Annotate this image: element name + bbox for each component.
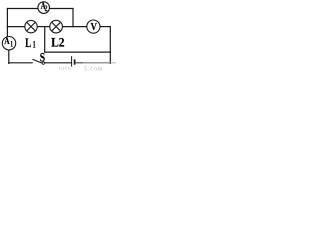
svg-text:S: S [40,50,45,64]
svg-text:1: 1 [33,40,36,51]
wire node L2-branch horizontal [45,51,111,53]
wire lamps row seg1 [7,26,25,28]
svg-text:A: A [4,36,9,47]
watermark underline stub [110,62,116,64]
svg-text:1: 1 [10,38,13,48]
wire right vertical [109,27,111,64]
voltmeter V [87,20,100,33]
ammeter A1 [2,36,15,50]
wire top-right segment [50,8,73,10]
svg-text:5.com: 5.com [84,65,103,72]
wire lamps row seg2 [37,26,50,28]
wire lamps row seg3 [63,26,88,28]
wire bottom-right (faded by watermark) [75,62,83,64]
svg-text:2: 2 [45,4,48,13]
svg-text:nten: nten [59,66,71,72]
wire bottom-mid [45,62,71,64]
wire voltmeter right [100,26,110,28]
lamp L2 [50,20,63,33]
wire left vertical [6,9,8,37]
battery long plate [71,56,73,67]
battery short plate [74,59,76,64]
switch S contact [42,62,44,64]
wire below A1 [8,50,10,64]
svg-text:V: V [91,22,98,33]
svg-text:L2: L2 [51,36,65,50]
wire A2 branch vertical [72,9,74,27]
wire top-left segment [7,8,38,10]
svg-text:L: L [25,36,31,50]
ammeter A2 [38,2,50,14]
wire node L2-branch vertical [44,27,46,52]
switch S lever [32,59,42,63]
wire bottom-left [9,62,32,64]
label L1 [25,36,36,51]
lamp L1 [25,20,37,32]
